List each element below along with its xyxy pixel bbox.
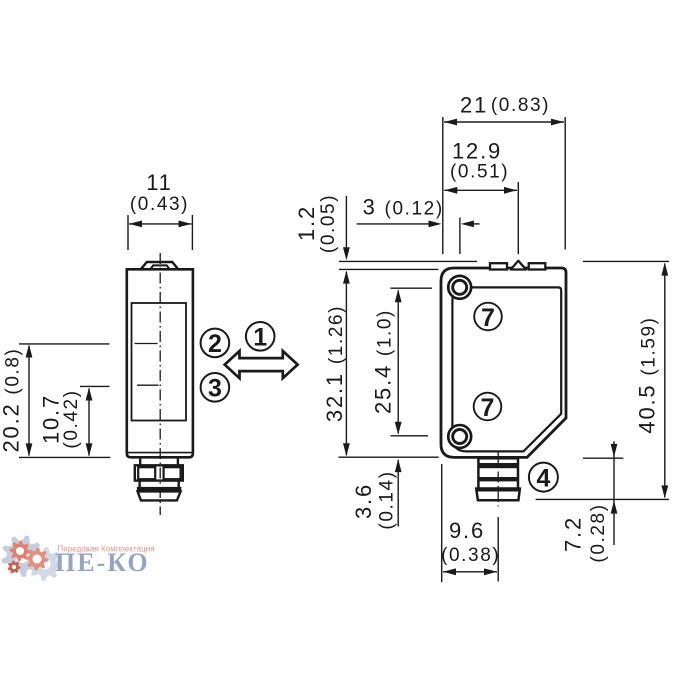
svg-text:25.4 (1.0): 25.4 (1.0) [371, 309, 396, 414]
svg-text:3: 3 [208, 375, 222, 403]
svg-text:32.1 (1.26): 32.1 (1.26) [322, 305, 347, 422]
svg-text:(0.51): (0.51) [450, 162, 509, 183]
svg-text:2: 2 [208, 330, 222, 358]
svg-text:10.7: 10.7 [39, 394, 64, 444]
svg-text:3 (0.12): 3 (0.12) [363, 195, 444, 220]
svg-text:11: 11 [146, 170, 172, 195]
svg-text:7: 7 [481, 394, 495, 422]
svg-text:1.2: 1.2 [294, 205, 319, 241]
svg-text:(0.83): (0.83) [491, 95, 550, 116]
svg-text:20.2 (0.8): 20.2 (0.8) [0, 347, 24, 452]
svg-text:(0.28): (0.28) [588, 503, 609, 562]
svg-text:(0.43): (0.43) [130, 194, 189, 215]
svg-text:4: 4 [536, 464, 550, 492]
svg-text:40.5 (1.59): 40.5 (1.59) [635, 316, 660, 433]
svg-text:7.2: 7.2 [561, 516, 586, 552]
svg-text:(0.42): (0.42) [61, 389, 82, 448]
svg-text:21: 21 [460, 93, 488, 118]
svg-text:(0.14): (0.14) [377, 470, 398, 529]
svg-text:ПЕ-КО: ПЕ-КО [55, 548, 150, 577]
svg-text:1: 1 [253, 324, 267, 352]
svg-text:7: 7 [481, 304, 495, 332]
svg-text:12.9: 12.9 [452, 139, 502, 164]
svg-text:(0.38): (0.38) [441, 545, 500, 566]
svg-text:3.6: 3.6 [351, 483, 376, 519]
svg-text:(0.05): (0.05) [318, 194, 339, 253]
svg-text:9.6: 9.6 [449, 518, 485, 543]
